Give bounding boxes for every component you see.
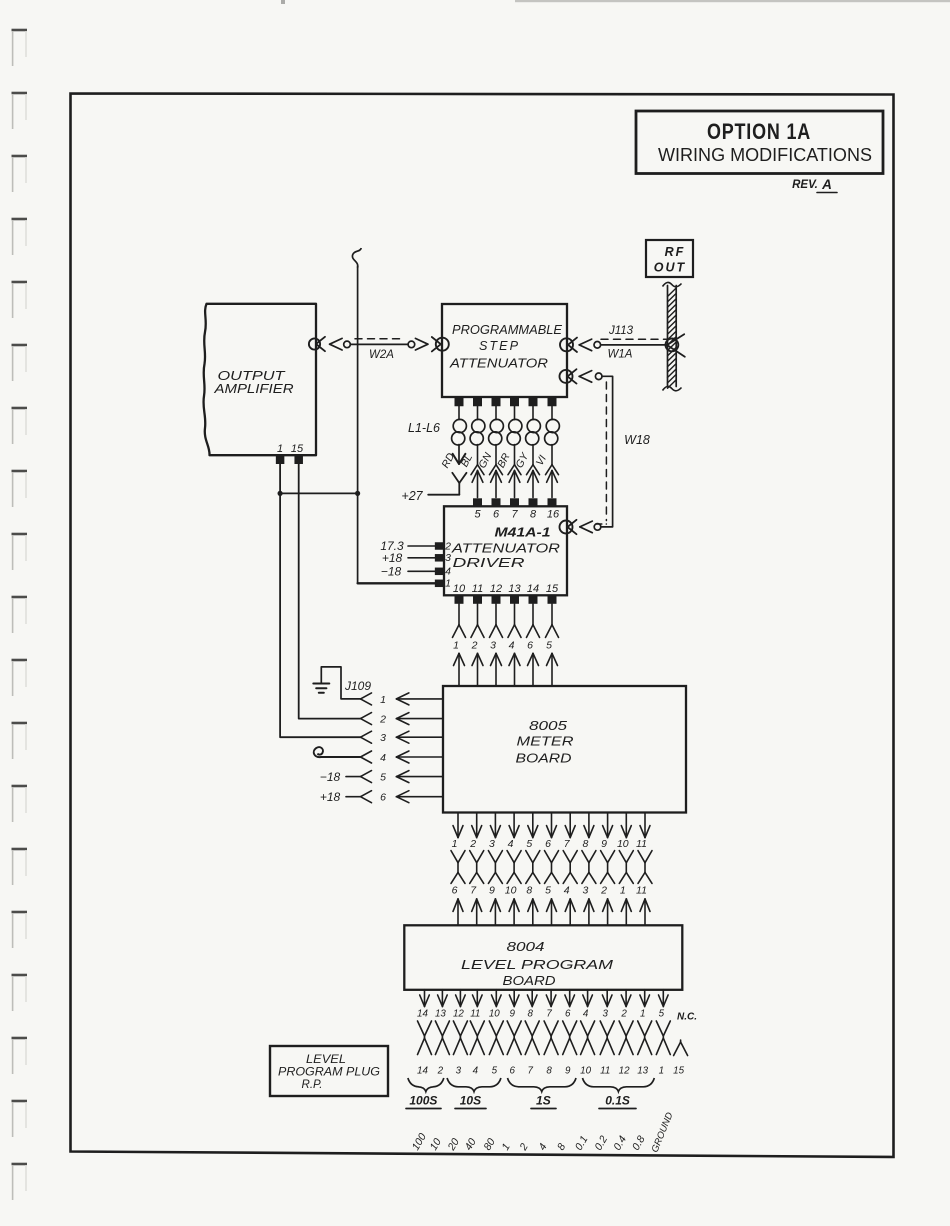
svg-text:8: 8 bbox=[530, 509, 537, 521]
svg-text:11: 11 bbox=[636, 885, 647, 897]
svg-text:4: 4 bbox=[445, 566, 451, 578]
svg-text:16: 16 bbox=[547, 509, 560, 521]
title box: OPTION 1A WIRING MODIFICATIONS bbox=[636, 111, 883, 174]
svg-text:15: 15 bbox=[673, 1066, 684, 1077]
svg-text:1S: 1S bbox=[536, 1094, 551, 1108]
svg-text:9: 9 bbox=[601, 838, 607, 850]
svg-text:5: 5 bbox=[526, 838, 532, 850]
label +18 and wire to pin 3 bbox=[382, 551, 435, 565]
wires driver to meter board with quick disconnects bbox=[453, 604, 559, 686]
M41A-1 attenuator driver box bbox=[444, 506, 567, 595]
svg-text:9: 9 bbox=[565, 1066, 571, 1077]
svg-text:4: 4 bbox=[380, 752, 386, 764]
quick disconnect pairs meter to program board bbox=[451, 851, 652, 884]
svg-text:LEVEL: LEVEL bbox=[306, 1054, 346, 1066]
amplifier pin 15 terminal bbox=[294, 456, 303, 464]
wire junction from amplifier pin 1 to riser bbox=[278, 491, 361, 496]
svg-text:PROGRAM PLUG: PROGRAM PLUG bbox=[278, 1067, 380, 1079]
cable W2A dashed run bbox=[355, 338, 405, 340]
svg-text:+18: +18 bbox=[320, 790, 341, 804]
attenuator auxiliary connector bbox=[560, 369, 577, 383]
svg-text:2: 2 bbox=[600, 885, 607, 897]
svg-text:14: 14 bbox=[417, 1009, 428, 1020]
svg-text:5: 5 bbox=[474, 509, 481, 521]
program board input plug arrows bbox=[453, 899, 650, 925]
svg-text:2: 2 bbox=[469, 838, 476, 850]
svg-text:5: 5 bbox=[659, 1009, 665, 1020]
svg-text:R.P.: R.P. bbox=[302, 1079, 323, 1091]
wires BL-VI with quick disconnects to driver pins bbox=[471, 445, 559, 498]
svg-text:12: 12 bbox=[453, 1009, 464, 1020]
cable W18 plug arrow at driver bbox=[580, 521, 601, 533]
svg-text:L1-L6: L1-L6 bbox=[408, 421, 440, 435]
svg-text:+27: +27 bbox=[401, 489, 423, 503]
attenuator RF output connector bbox=[560, 338, 577, 352]
svg-text:3: 3 bbox=[380, 732, 386, 744]
wire amplifier pin 1 to meter board 3 bbox=[280, 464, 360, 737]
cable W1A plug arrow into attenuator bbox=[579, 339, 600, 351]
svg-text:M41A-1: M41A-1 bbox=[495, 525, 551, 540]
svg-text:6: 6 bbox=[380, 792, 386, 804]
svg-text:W18: W18 bbox=[624, 433, 650, 447]
program board output plug arrows bbox=[420, 990, 668, 1007]
svg-text:J109: J109 bbox=[344, 679, 371, 693]
svg-text:7: 7 bbox=[546, 1009, 552, 1020]
svg-text:REV.: REV. bbox=[792, 179, 818, 191]
meter board left plug arrows 1-6 bbox=[361, 693, 444, 804]
svg-text:15: 15 bbox=[291, 443, 304, 455]
brace group 0.1S bbox=[583, 1078, 655, 1109]
svg-text:1: 1 bbox=[659, 1066, 664, 1077]
label -18 and wire to pin 4 bbox=[381, 564, 435, 578]
svg-text:13: 13 bbox=[435, 1009, 446, 1020]
chassis panel (hatched wall) bbox=[663, 282, 682, 390]
amplifier RF output connector bbox=[309, 337, 325, 351]
svg-text:−18: −18 bbox=[381, 564, 402, 578]
attenuator driver input connector bbox=[560, 520, 577, 534]
svg-text:10: 10 bbox=[489, 1009, 500, 1020]
svg-text:10: 10 bbox=[453, 583, 466, 595]
svg-text:1: 1 bbox=[445, 578, 451, 590]
svg-text:1: 1 bbox=[380, 694, 386, 706]
svg-text:3: 3 bbox=[602, 1009, 608, 1020]
svg-text:5: 5 bbox=[545, 885, 551, 897]
svg-text:8004: 8004 bbox=[507, 940, 545, 954]
svg-text:A: A bbox=[821, 177, 832, 192]
svg-text:6: 6 bbox=[565, 1009, 571, 1020]
brace group 1S bbox=[508, 1078, 577, 1109]
wire from driver pin 1 riser with break squiggle bbox=[352, 248, 361, 583]
wire W1A solid run to chassis connector bbox=[601, 344, 666, 346]
svg-text:9: 9 bbox=[509, 1009, 515, 1020]
svg-text:12: 12 bbox=[619, 1066, 630, 1077]
svg-text:DRIVER: DRIVER bbox=[453, 556, 525, 570]
svg-text:2: 2 bbox=[444, 541, 451, 553]
svg-text:6: 6 bbox=[527, 640, 533, 652]
svg-text:11: 11 bbox=[636, 838, 647, 850]
brace group 10S bbox=[447, 1078, 501, 1109]
label -18 and wire to meter board 5 bbox=[320, 770, 361, 784]
meter board wire numbers 1-11 bbox=[452, 838, 647, 850]
level program plug pin numbers bbox=[417, 1066, 685, 1077]
svg-text:ATTENUATOR: ATTENUATOR bbox=[451, 542, 560, 556]
svg-text:13: 13 bbox=[508, 583, 521, 595]
svg-text:OUT: OUT bbox=[654, 261, 686, 275]
svg-text:6: 6 bbox=[452, 885, 458, 897]
program board wire numbers bbox=[452, 885, 647, 897]
svg-text:14: 14 bbox=[527, 583, 539, 595]
quick disconnect pairs to level program plug bbox=[418, 1021, 671, 1055]
svg-text:3: 3 bbox=[445, 552, 451, 564]
svg-text:11: 11 bbox=[600, 1066, 610, 1077]
svg-text:6: 6 bbox=[545, 838, 551, 850]
svg-text:BOARD: BOARD bbox=[516, 752, 572, 766]
wire W2A solid run bbox=[350, 343, 408, 345]
programmable step attenuator box bbox=[442, 304, 567, 397]
svg-text:8: 8 bbox=[526, 885, 532, 897]
svg-text:OPTION 1A: OPTION 1A bbox=[707, 119, 811, 144]
step value labels bbox=[410, 1131, 648, 1153]
svg-text:13: 13 bbox=[637, 1066, 648, 1077]
wire amplifier pin 15 to meter board 2 bbox=[299, 464, 361, 719]
unconnected fork position 15 bbox=[674, 1040, 688, 1056]
driver left pins 2 3 4 1 bbox=[435, 542, 445, 587]
svg-text:N.C.: N.C. bbox=[677, 1012, 697, 1023]
wire W18 solid run bbox=[601, 376, 613, 527]
8005 meter board box bbox=[443, 686, 686, 813]
label +18 and wire to meter board 6 bbox=[320, 790, 361, 804]
svg-text:4: 4 bbox=[473, 1066, 479, 1077]
svg-text:7: 7 bbox=[511, 509, 518, 521]
level program plug box bbox=[270, 1046, 388, 1096]
wire color labels RD BL GN BR GY VI bbox=[439, 450, 549, 470]
svg-text:14: 14 bbox=[417, 1066, 428, 1077]
svg-text:2: 2 bbox=[379, 714, 386, 726]
svg-text:8: 8 bbox=[582, 838, 588, 850]
svg-text:PROGRAMMABLE: PROGRAMMABLE bbox=[452, 323, 563, 337]
svg-text:5: 5 bbox=[546, 640, 552, 652]
svg-text:11: 11 bbox=[470, 1009, 480, 1020]
svg-text:METER: METER bbox=[517, 735, 574, 749]
cable W18 plug arrow at attenuator bbox=[579, 371, 602, 383]
svg-text:10S: 10S bbox=[460, 1094, 481, 1108]
svg-text:100S: 100S bbox=[409, 1094, 437, 1108]
svg-text:4: 4 bbox=[509, 640, 515, 652]
svg-text:10: 10 bbox=[617, 838, 629, 850]
meter board output plug arrows bbox=[453, 813, 650, 838]
cable W18 dashed run bbox=[596, 382, 607, 524]
amplifier pin 1 terminal bbox=[276, 456, 285, 464]
inductors L1-L6 bbox=[452, 406, 560, 445]
svg-text:4: 4 bbox=[508, 838, 514, 850]
svg-text:1: 1 bbox=[452, 838, 458, 850]
svg-text:BOARD: BOARD bbox=[503, 974, 556, 988]
svg-text:12: 12 bbox=[490, 583, 502, 595]
attenuator RF input connector bbox=[432, 337, 449, 351]
RF OUT box bbox=[646, 240, 693, 277]
svg-text:AMPLIFIER: AMPLIFIER bbox=[213, 381, 293, 396]
svg-text:9: 9 bbox=[489, 885, 495, 897]
scan artifact: cut-off line at top edge bbox=[515, 0, 950, 2]
svg-text:WIRING MODIFICATIONS: WIRING MODIFICATIONS bbox=[658, 144, 872, 165]
svg-text:−18: −18 bbox=[320, 770, 341, 784]
svg-text:11: 11 bbox=[472, 583, 483, 595]
attenuator driver top pins bbox=[473, 498, 557, 506]
svg-text:8: 8 bbox=[546, 1066, 552, 1077]
svg-text:3: 3 bbox=[456, 1066, 462, 1077]
svg-text:2: 2 bbox=[620, 1009, 627, 1020]
output amplifier box bbox=[203, 304, 316, 455]
svg-text:STEP: STEP bbox=[479, 339, 520, 353]
svg-text:W1A: W1A bbox=[608, 349, 633, 361]
svg-text:2: 2 bbox=[437, 1066, 444, 1077]
connector J113 on chassis wall bbox=[666, 334, 685, 357]
svg-text:5: 5 bbox=[492, 1066, 498, 1077]
svg-text:8: 8 bbox=[527, 1009, 533, 1020]
svg-text:3: 3 bbox=[582, 885, 588, 897]
svg-text:W2A: W2A bbox=[369, 349, 394, 361]
svg-text:6: 6 bbox=[493, 509, 500, 521]
svg-text:0.1S: 0.1S bbox=[605, 1094, 630, 1108]
wire riser to driver pin 1 bbox=[358, 582, 435, 584]
drawing border frame bbox=[71, 94, 894, 1158]
svg-text:1: 1 bbox=[453, 640, 459, 652]
fork jack Y and +27 feed bbox=[428, 473, 466, 495]
cable J113 dashed run bbox=[601, 338, 667, 340]
wire RD with plug arrow into +27 jack bbox=[453, 445, 466, 465]
8004 level program board box bbox=[404, 925, 682, 990]
svg-text:1: 1 bbox=[640, 1009, 645, 1020]
svg-text:10: 10 bbox=[505, 885, 517, 897]
revision label REV. A bbox=[792, 177, 837, 193]
svg-text:ATTENUATOR: ATTENUATOR bbox=[449, 357, 548, 371]
svg-text:4: 4 bbox=[564, 885, 570, 897]
ground symbol J109 bbox=[313, 667, 360, 699]
program board pin numbers bbox=[417, 1009, 665, 1020]
svg-text:LEVEL PROGRAM: LEVEL PROGRAM bbox=[461, 958, 614, 972]
svg-text:6: 6 bbox=[509, 1066, 515, 1077]
svg-text:8005: 8005 bbox=[529, 719, 567, 733]
svg-text:+18: +18 bbox=[382, 551, 403, 565]
driver bottom pins bbox=[455, 596, 557, 604]
svg-text:3: 3 bbox=[489, 838, 495, 850]
svg-text:5: 5 bbox=[380, 772, 386, 784]
svg-text:4: 4 bbox=[583, 1009, 589, 1020]
svg-text:15: 15 bbox=[546, 583, 559, 595]
svg-text:3: 3 bbox=[490, 640, 496, 652]
svg-text:10: 10 bbox=[580, 1066, 591, 1077]
brace group 100S bbox=[406, 1078, 444, 1109]
cable W2A plug arrow at amplifier bbox=[330, 338, 351, 350]
binder holes along left edge bbox=[12, 30, 28, 66]
wire to meter board 4 with break squiggle bbox=[314, 747, 361, 757]
attenuator solenoid pins bbox=[455, 398, 557, 407]
svg-text:2: 2 bbox=[471, 640, 478, 652]
svg-text:1: 1 bbox=[277, 443, 283, 455]
label 17.3 and wire to pin 2 bbox=[380, 539, 435, 553]
svg-text:1: 1 bbox=[620, 885, 626, 897]
svg-text:J113: J113 bbox=[608, 325, 634, 337]
svg-text:7: 7 bbox=[527, 1066, 533, 1077]
svg-text:RF: RF bbox=[665, 245, 686, 259]
cable W2A plug arrow at attenuator bbox=[408, 338, 428, 350]
